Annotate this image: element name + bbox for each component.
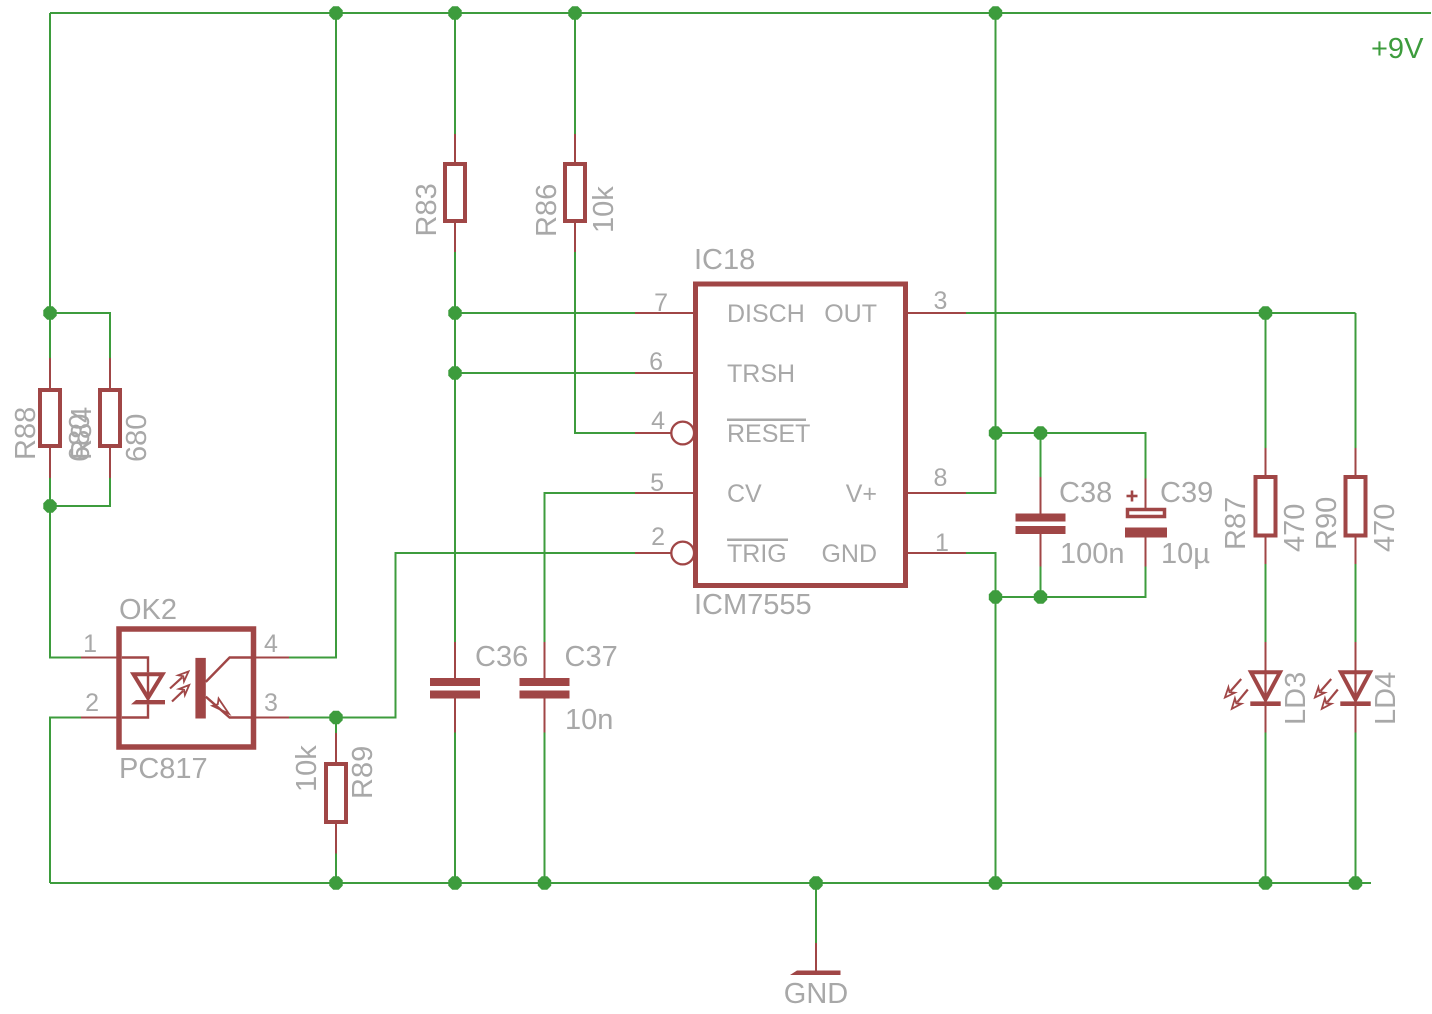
svg-text:1: 1 [83, 630, 97, 658]
svg-text:GND: GND [784, 978, 848, 1010]
IC18 pin 7 lead [635, 312, 696, 314]
wire R86 to IC pin 4 RESET [575, 252, 635, 433]
OK2 pin 2 lead [81, 717, 119, 719]
resistor R86 [565, 164, 585, 221]
wire GND bus down to rail [995, 597, 997, 883]
svg-text:R84: R84 [66, 407, 98, 460]
wire C37 bottom lead (pin) [544, 699, 546, 733]
wire R90 to LD4 [1355, 564, 1357, 642]
wire OUT down to R90 [1355, 313, 1357, 448]
wire R84 bottom to node [50, 478, 110, 506]
wire node to R84 top [50, 313, 110, 358]
wire GND rail to ground symbol [815, 883, 817, 943]
wire C36 bottom lead (pin) [454, 699, 456, 733]
junction TRIG node [329, 711, 342, 724]
junction GND bus / pin1 riser [989, 590, 1002, 603]
wire V+ node to IC pin 8 [966, 433, 996, 493]
wire DISCH node to IC pin 7 [455, 312, 635, 314]
IC18 pin 4 inversion bubble [671, 422, 694, 445]
svg-text:LD3: LD3 [1280, 672, 1312, 725]
junction GND rail / LD4 [1349, 876, 1362, 889]
junction +9V rail / R83 [448, 6, 461, 19]
capacitor C39 positive plate [1128, 510, 1165, 517]
svg-text:C36: C36 [475, 641, 528, 673]
junction GND rail / C36 [448, 876, 461, 889]
IC18 TRIG overline [727, 538, 788, 541]
wire node down to R89 [335, 718, 337, 734]
wire R87 bottom lead (pin) [1265, 536, 1267, 565]
wire C37 top lead (pin) [544, 642, 546, 678]
svg-text:IC18: IC18 [694, 244, 755, 276]
wire LD3 to GND rail [1265, 733, 1267, 884]
wire TRIG node to IC pin 2 [336, 553, 635, 718]
LED LD3 [1225, 642, 1281, 733]
wire C36 to GND rail [454, 733, 456, 884]
svg-text:10k: 10k [588, 186, 620, 233]
svg-text:GND: GND [821, 540, 877, 568]
svg-text:1: 1 [935, 529, 949, 557]
wire C38 bottom stub [1040, 567, 1042, 598]
IC18 pin 6 lead [635, 372, 696, 374]
wire C39 top lead (pin) [1145, 479, 1147, 509]
capacitor C38 [1016, 514, 1066, 522]
svg-text:7: 7 [654, 289, 668, 317]
IC18 RESET overline [727, 418, 806, 421]
wire R88 bottom lead (pin) [49, 446, 51, 478]
resistor R87 [1256, 477, 1276, 536]
junction GND rail / ground symbol [809, 876, 822, 889]
wire R89 to GND rail [335, 854, 337, 884]
svg-text:R90: R90 [1311, 497, 1343, 550]
wire OK2 pin 3 to node [289, 717, 336, 719]
wire OK2 pin 2 to GND rail [50, 718, 81, 884]
junction C38 bottom [1034, 590, 1047, 603]
junction R88/R84 top node [43, 306, 56, 319]
wire C36 top lead (pin) [454, 642, 456, 678]
wire C37 to GND rail [544, 733, 546, 884]
capacitor C39 negative plate [1125, 528, 1167, 538]
ground symbol [815, 943, 817, 971]
svg-text:100n: 100n [1060, 538, 1125, 570]
svg-text:4: 4 [651, 407, 665, 435]
svg-text:6: 6 [649, 348, 663, 376]
junction +9V rail / R86 [568, 6, 581, 19]
junction OUT / R87 branch [1259, 306, 1272, 319]
svg-text:RESET: RESET [727, 420, 810, 448]
svg-text:680: 680 [121, 414, 153, 462]
IC18 pin 3 lead [906, 312, 967, 314]
svg-text:5: 5 [650, 469, 664, 497]
capacitor C36 [430, 678, 480, 686]
wire R84 top lead (pin) [109, 358, 111, 390]
resistor R84 [100, 390, 120, 446]
wire R83 bottom lead (pin) [454, 221, 456, 252]
junction GND rail / R89 [329, 876, 342, 889]
svg-text:10n: 10n [565, 704, 613, 736]
wire +9V rail [50, 12, 1431, 14]
svg-text:4: 4 [264, 630, 278, 658]
svg-text:2: 2 [651, 523, 665, 551]
OK2 pin 1 lead [81, 657, 119, 659]
svg-text:R86: R86 [531, 184, 563, 237]
svg-text:10µ: 10µ [1161, 538, 1210, 570]
wire C38 top lead (pin) [1040, 477, 1042, 514]
svg-text:LD4: LD4 [1370, 672, 1402, 725]
junction R88/R84 bottom node [43, 499, 56, 512]
svg-text:470: 470 [1279, 504, 1311, 552]
svg-text:TRSH: TRSH [727, 360, 795, 388]
wire R90 bottom lead (pin) [1355, 536, 1357, 565]
wire +9V rail down to R88/R84 node [49, 13, 51, 313]
wire C39 bottom to GND bus [996, 567, 1146, 598]
junction +9V rail / OK2 pin4 riser [329, 6, 342, 19]
resistor R83 [445, 164, 465, 221]
wire IC pin 1 to GND bus [966, 553, 996, 597]
resistor R88 [40, 390, 60, 446]
svg-text:8: 8 [934, 464, 948, 492]
capacitor C39 plus mark [1127, 495, 1138, 498]
junction C38 top [1034, 426, 1047, 439]
OK2 internal LED [122, 658, 165, 718]
wire R83 to C36 (DISCH/TRSH net) [454, 252, 456, 642]
wire OUT down to R87 [1265, 313, 1267, 448]
svg-text:TRIG: TRIG [727, 540, 787, 568]
OK2 pin 3 lead [254, 717, 290, 719]
wire R88 top lead (net) [49, 313, 51, 358]
capacitor C37 [520, 678, 570, 686]
OK2 light arrow lower [172, 685, 189, 702]
svg-text:OUT: OUT [824, 300, 877, 328]
svg-text:3: 3 [934, 287, 948, 315]
svg-text:C39: C39 [1160, 477, 1213, 509]
wire IC pin 5 CV to C37 [545, 493, 636, 642]
svg-text:3: 3 [264, 689, 278, 717]
svg-text:10k: 10k [291, 745, 323, 792]
OK2 phototransistor [195, 658, 251, 719]
wire R89 top lead (pin) [335, 733, 337, 764]
junction TRSH node [448, 366, 461, 379]
IC18 pin 5 lead [635, 492, 696, 494]
wire R88 top lead (pin) [49, 358, 51, 390]
junction GND rail / IC pin1 net [989, 876, 1002, 889]
svg-text:R88: R88 [10, 407, 42, 460]
wire R83 top lead (pin) [454, 134, 456, 164]
wire V+ node to C38/C39 [996, 433, 1146, 479]
optocoupler OK2 box [119, 629, 254, 747]
wire C39 bottom lead (pin) [1145, 538, 1147, 567]
svg-text:PC817: PC817 [119, 753, 208, 785]
svg-text:R87: R87 [1220, 497, 1252, 550]
wire R86 bottom lead (pin) [574, 221, 576, 252]
svg-text:ICM7555: ICM7555 [694, 589, 812, 621]
wire R87 top lead (pin) [1265, 448, 1267, 477]
svg-text:2: 2 [85, 689, 99, 717]
op-amp/timer IC18 box [696, 284, 906, 586]
svg-text:470: 470 [1369, 504, 1401, 552]
svg-text:C37: C37 [565, 641, 618, 673]
wire C38 bottom lead (pin) [1040, 534, 1042, 567]
junction DISCH node [448, 306, 461, 319]
svg-text:+9V: +9V [1371, 33, 1424, 65]
IC18 pin 2 inversion bubble [671, 542, 694, 565]
wire R90 top lead (pin) [1355, 448, 1357, 477]
svg-text:V+: V+ [846, 480, 877, 508]
resistor R90 [1346, 477, 1366, 536]
wire +9V rail to R83 [454, 13, 456, 134]
OK2 light arrow upper [170, 672, 189, 689]
wire R84 bottom lead (pin) [109, 446, 111, 478]
svg-text:C38: C38 [1059, 477, 1112, 509]
OK2 pin 4 lead [254, 657, 290, 659]
wire R87 to LD3 [1265, 564, 1267, 642]
wire OK2 pin 4 to +9V rail [289, 13, 336, 658]
svg-text:DISCH: DISCH [727, 300, 805, 328]
junction V+ node [989, 426, 1002, 439]
wire +9V rail to R86 [574, 13, 576, 134]
wire LD4 to GND rail [1355, 733, 1357, 884]
IC18 pin 2 lead [635, 552, 671, 554]
junction GND rail / LD3 [1259, 876, 1272, 889]
resistor R89 [326, 764, 346, 822]
IC18 pin 8 lead [906, 492, 967, 494]
wire node down to OK2 pin 1 [50, 506, 81, 658]
wire +9V rail down to V+ node [995, 13, 997, 433]
IC18 pin 1 lead [906, 552, 967, 554]
wire R86 top lead (pin) [574, 134, 576, 164]
svg-text:CV: CV [727, 480, 762, 508]
svg-text:OK2: OK2 [119, 594, 177, 626]
svg-text:R83: R83 [411, 183, 443, 236]
svg-text:R89: R89 [347, 746, 379, 799]
IC18 pin 4 lead [635, 432, 671, 434]
LED LD4 [1315, 642, 1371, 733]
wire OUT to LED branches [966, 312, 1356, 314]
wire TRSH node to IC pin 6 [455, 372, 635, 374]
wire R89 bottom lead (pin) [335, 822, 337, 854]
junction GND rail / C37 [538, 876, 551, 889]
wire R88 bottom to node [49, 478, 51, 506]
wire GND rail [50, 882, 1371, 884]
junction +9V rail / V+ riser [989, 6, 1002, 19]
wire C38 top stub [1040, 433, 1042, 477]
